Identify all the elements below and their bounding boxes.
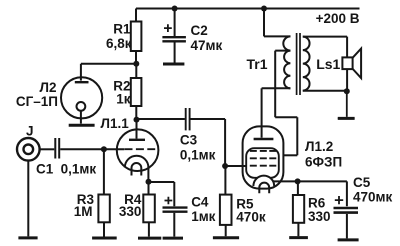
transformer Tr1 primary feed [264,9,290,37]
capacitor C1 [55,138,59,159]
svg-text:Л1.2: Л1.2 [305,139,333,154]
node R2/anode/C3 junction [134,117,140,123]
svg-text:6ФЗП: 6ФЗП [305,154,342,169]
svg-text:СГ–1П: СГ–1П [16,94,58,109]
wire jack to C1 [40,148,55,150]
transformer core [297,33,300,95]
svg-text:470к: 470к [236,210,266,225]
svg-text:C2: C2 [191,23,208,38]
svg-text:330: 330 [119,204,142,219]
ground under C5 [338,238,359,241]
ground under secondary [338,91,355,118]
svg-text:Ls1: Ls1 [316,56,340,72]
ground under R3 [92,237,117,240]
wire C1 to grid node [60,148,104,150]
wire grid lead L1.1 [104,148,124,150]
svg-text:0,1мк: 0,1мк [61,162,97,177]
node R1/R2/L2 junction [133,61,139,67]
input jack J [17,138,40,236]
svg-text:1М: 1М [74,204,93,219]
svg-text:Л2: Л2 [40,80,57,95]
capacitor C3 [186,108,190,130]
wire L2 to node [81,63,136,65]
svg-text:0,1мк: 0,1мк [180,147,216,162]
node C2 tap on rail [172,6,178,12]
node speaker/secondary/ground junction [344,88,350,94]
node C3/R5/g1 junction [222,163,228,169]
transformer Tr1 primary winding [283,36,290,88]
capacitor C5 [298,181,358,238]
pentode L1.2 [243,88,298,193]
ground under R4 [138,237,161,240]
resistor R3 [98,149,109,236]
wire +200V top rail [136,8,360,10]
wire secondary bottom [303,90,347,92]
wire primary bottom to anode [262,87,291,89]
ground under jack [18,236,37,239]
wire C3 to grid column [191,119,226,166]
svg-text:J: J [26,124,34,139]
svg-text:+200 В: +200 В [316,11,360,26]
triode L1.1 [117,120,159,182]
resistor R2 [131,64,142,120]
transformer Tr1 secondary winding [303,37,310,91]
svg-text:1мк: 1мк [191,209,215,224]
ground under C2 [163,63,184,66]
resistor R4 [143,182,155,237]
ground under R6 [289,236,308,239]
svg-text:330: 330 [308,209,331,224]
resistor R5 [220,166,232,236]
svg-text:R1: R1 [113,22,131,37]
node cathode/R4/C4 junction [146,179,152,185]
svg-text:47мк: 47мк [191,38,223,53]
svg-text:C1: C1 [36,162,54,177]
resistor R6 [293,181,304,236]
ground under C4 [163,237,183,240]
speaker Ls1 [342,49,361,92]
ground under L2 [69,124,95,127]
svg-text:Л1.1: Л1.1 [101,116,130,131]
wire grid lead L1.2 [225,165,246,167]
svg-text:Tr1: Tr1 [247,56,268,72]
node C1/R3/grid junction [101,146,107,152]
svg-text:6,8к: 6,8к [106,36,132,51]
tube L2 (SG-1P) [61,64,102,124]
svg-text:470мк: 470мк [353,189,393,204]
ground under R5 [213,236,239,239]
wire anode node to C3 [137,118,185,121]
svg-text:C4: C4 [191,194,209,209]
capacitor C4 [149,182,188,237]
node transformer feed on rail [261,6,267,12]
node cathode/R6/C5 junction [295,178,301,184]
wire secondary top to speaker [303,37,347,58]
resistor R1 [131,9,142,64]
capacitor C2 [162,9,186,63]
svg-text:1к: 1к [116,92,131,107]
svg-text:C3: C3 [180,132,198,147]
wire primary tap [275,51,297,156]
svg-text:C5: C5 [353,175,371,190]
